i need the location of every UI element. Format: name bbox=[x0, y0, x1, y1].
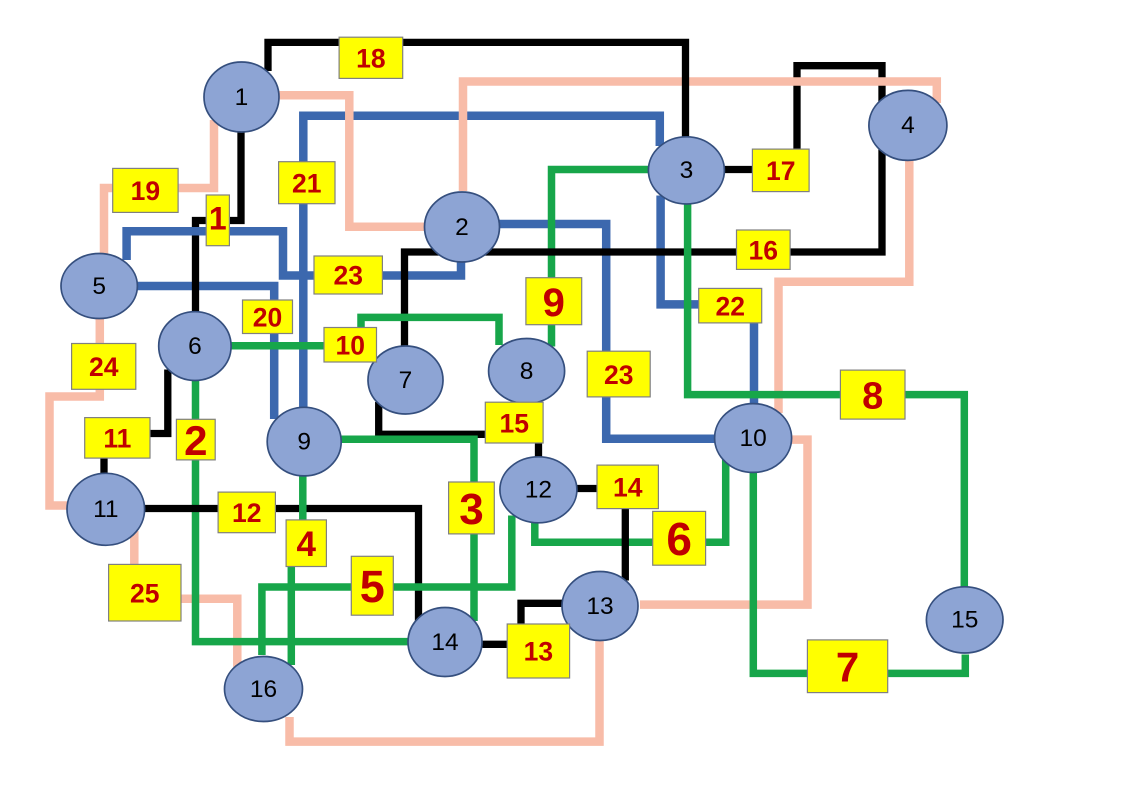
node 3 bbox=[648, 137, 724, 204]
edge label big 4 bbox=[286, 520, 326, 567]
svg-text:4: 4 bbox=[297, 525, 317, 564]
node 4 bbox=[869, 90, 947, 160]
wire green edge 9-14 label3 bbox=[341, 439, 475, 621]
wire salmon edge 2-4 bbox=[463, 82, 937, 192]
wire salmon edge 10-13 bbox=[640, 440, 808, 605]
svg-text:12: 12 bbox=[525, 477, 552, 504]
edge label 25 bbox=[109, 564, 181, 621]
edge label 11 bbox=[85, 418, 150, 459]
wire black edge 7-12 label15 bbox=[379, 402, 539, 457]
svg-text:13: 13 bbox=[586, 593, 613, 620]
svg-text:25: 25 bbox=[130, 578, 159, 608]
edge label 14 bbox=[597, 465, 658, 509]
svg-text:6: 6 bbox=[188, 333, 202, 360]
svg-text:6: 6 bbox=[666, 513, 692, 565]
node 5 bbox=[61, 254, 137, 319]
wire green edge 3-8 label9 bbox=[552, 170, 650, 347]
node 12 bbox=[500, 457, 577, 523]
svg-text:10: 10 bbox=[336, 330, 365, 360]
svg-text:2: 2 bbox=[184, 417, 207, 464]
svg-text:18: 18 bbox=[356, 44, 385, 74]
node 10 bbox=[715, 404, 792, 473]
wire blue edge 3-9 label21 bbox=[303, 116, 660, 411]
wire green edge 10-15 label7 bbox=[753, 471, 965, 673]
svg-text:3: 3 bbox=[459, 485, 483, 534]
wire black edge 3-4 label17 bbox=[725, 66, 883, 170]
svg-text:3: 3 bbox=[680, 157, 694, 184]
wire salmon edge 13-16 bbox=[290, 640, 600, 742]
edge label 17 bbox=[752, 149, 809, 192]
wire salmon edge 5-11 label24 bbox=[50, 317, 100, 506]
edge label 21 bbox=[279, 162, 335, 204]
wire green edge 16-12 label5 bbox=[262, 516, 512, 656]
svg-text:1: 1 bbox=[235, 84, 249, 111]
edge label 12 bbox=[218, 492, 275, 533]
wire blue edge 3-10 label22 bbox=[661, 196, 754, 407]
edge label 24 bbox=[72, 344, 136, 390]
edge label 19 bbox=[113, 168, 178, 212]
node 6 bbox=[159, 312, 231, 381]
node 9 bbox=[267, 407, 341, 476]
wire green edge 9-16 label4 bbox=[291, 475, 303, 666]
wire salmon edge 4-10 bbox=[779, 159, 910, 413]
svg-text:15: 15 bbox=[951, 607, 978, 634]
svg-text:14: 14 bbox=[613, 473, 643, 503]
node 2 bbox=[425, 192, 500, 262]
svg-text:11: 11 bbox=[93, 496, 118, 523]
wire black edge 7-4 label16 bbox=[405, 150, 883, 349]
node 1 bbox=[204, 62, 279, 132]
wire green edge 10-12 label6 bbox=[535, 459, 726, 542]
wire salmon edge 11-16 label25 bbox=[134, 531, 237, 667]
wire black edge 1-6 label1 bbox=[196, 129, 242, 313]
wire green edge 6-14 label2 bbox=[196, 380, 410, 642]
wire blue edge 2-10 label23b bbox=[499, 224, 717, 439]
svg-text:7: 7 bbox=[836, 644, 859, 691]
node 11 bbox=[67, 473, 145, 545]
svg-text:9: 9 bbox=[297, 428, 311, 455]
svg-text:10: 10 bbox=[739, 425, 766, 452]
wire black edge 14-13 label13 bbox=[483, 603, 563, 644]
edge label big 8 bbox=[840, 370, 905, 419]
svg-text:20: 20 bbox=[253, 302, 282, 332]
svg-text:17: 17 bbox=[766, 156, 795, 186]
svg-text:12: 12 bbox=[232, 498, 261, 528]
svg-text:14: 14 bbox=[431, 629, 458, 656]
svg-text:23: 23 bbox=[604, 360, 633, 390]
edge label big 6 bbox=[653, 511, 706, 565]
edge label 15 bbox=[485, 402, 543, 443]
wire blue edge 5-9 label20 bbox=[137, 286, 275, 419]
node 13 bbox=[562, 572, 638, 641]
edge label big 2 bbox=[176, 417, 215, 464]
svg-text:5: 5 bbox=[360, 561, 385, 612]
wire blue edge 5-2 label23a bbox=[127, 231, 461, 275]
svg-text:2: 2 bbox=[455, 214, 469, 241]
node 8 bbox=[489, 339, 565, 404]
node 14 bbox=[408, 608, 482, 677]
node 7 bbox=[368, 346, 443, 414]
svg-text:13: 13 bbox=[524, 637, 553, 667]
edge label big 7 bbox=[807, 640, 887, 693]
edge label 23b bbox=[587, 351, 650, 397]
svg-text:4: 4 bbox=[901, 112, 915, 139]
svg-text:24: 24 bbox=[89, 352, 119, 382]
wire green edge 6-8 label10 bbox=[231, 317, 500, 345]
edge label big 5 bbox=[351, 556, 393, 615]
svg-text:8: 8 bbox=[520, 358, 534, 385]
node 16 bbox=[225, 657, 303, 722]
svg-text:1: 1 bbox=[209, 200, 227, 236]
wire black edge 1-3 label18 bbox=[268, 42, 686, 137]
svg-text:22: 22 bbox=[715, 291, 744, 321]
edge label big 1 bbox=[206, 195, 229, 246]
edge label 16 bbox=[737, 230, 791, 269]
svg-text:7: 7 bbox=[399, 367, 413, 394]
svg-text:23: 23 bbox=[333, 261, 362, 291]
edge label big 9 bbox=[526, 278, 582, 325]
svg-text:19: 19 bbox=[131, 176, 160, 206]
svg-text:9: 9 bbox=[543, 281, 565, 325]
svg-text:21: 21 bbox=[292, 168, 321, 198]
svg-text:8: 8 bbox=[862, 376, 883, 418]
svg-text:16: 16 bbox=[749, 235, 778, 265]
wire black edge 6-11 label11 bbox=[104, 370, 168, 477]
wire green edge 3-15 label8 bbox=[688, 204, 965, 589]
svg-text:5: 5 bbox=[92, 273, 106, 300]
edge label 18 bbox=[339, 37, 403, 78]
edge label 22 bbox=[699, 288, 762, 323]
wire black edge 12-13 label14 bbox=[577, 489, 626, 581]
svg-text:16: 16 bbox=[250, 676, 277, 703]
svg-text:15: 15 bbox=[499, 408, 528, 438]
wire salmon edge 1-5 label19 bbox=[104, 120, 214, 255]
wire black edge 11-14 label12 bbox=[144, 509, 419, 622]
edge label 20 bbox=[243, 300, 293, 334]
edge label 23a bbox=[314, 256, 382, 294]
wire salmon edge 1-2 bbox=[279, 95, 426, 227]
edge label 13 bbox=[507, 624, 569, 678]
node 15 bbox=[926, 587, 1003, 653]
edge label big 3 bbox=[449, 482, 495, 534]
svg-text:11: 11 bbox=[103, 424, 131, 454]
edge label 10 bbox=[324, 328, 377, 363]
